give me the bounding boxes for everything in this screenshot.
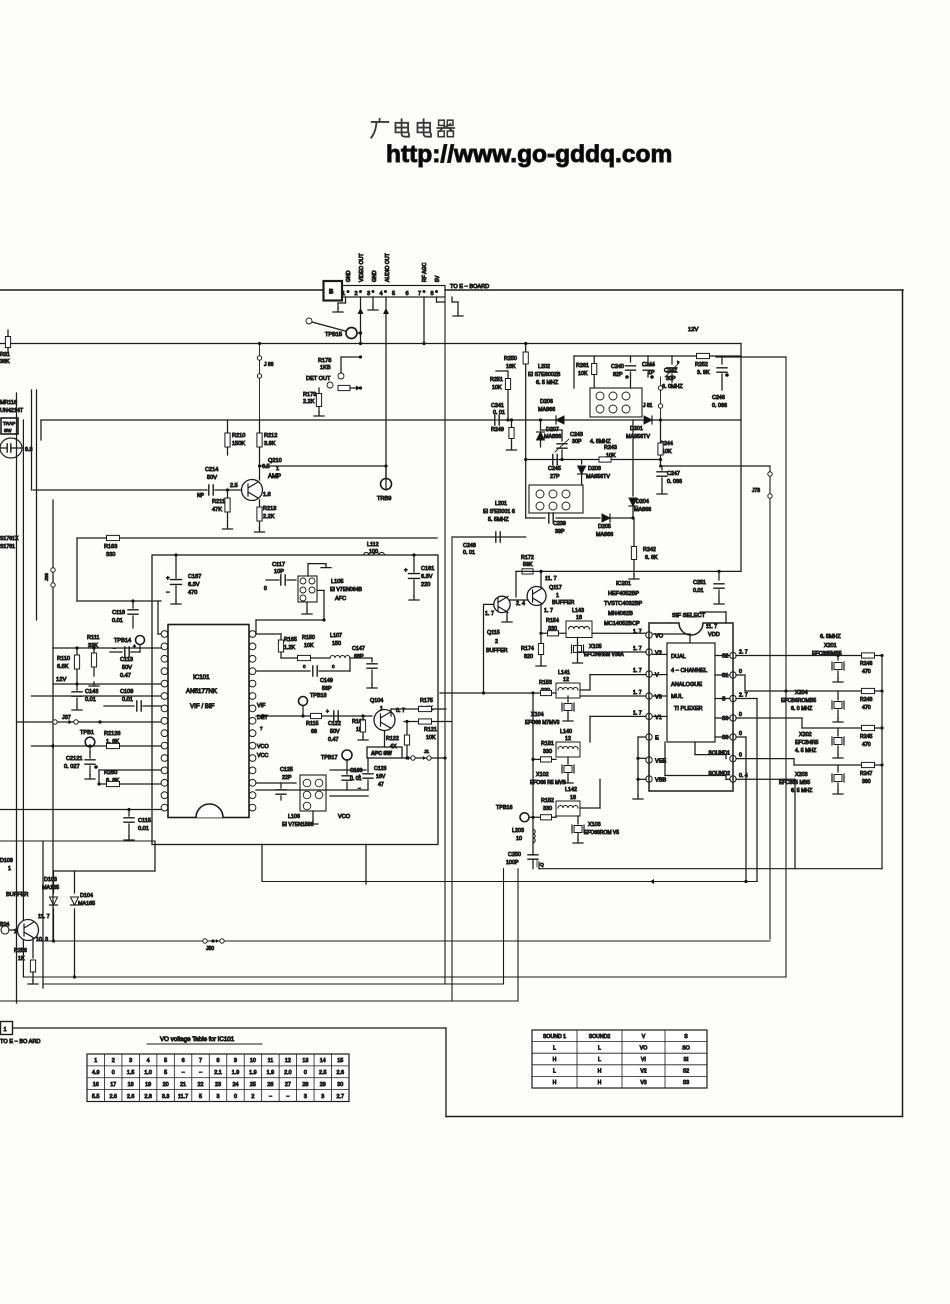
filter X103 EFO66ROM V5 <box>577 816 579 824</box>
svg-text:2.5: 2.5 <box>319 1070 327 1076</box>
wire Q117 base link <box>509 599 528 601</box>
svg-text:0. 01: 0. 01 <box>463 550 475 556</box>
wire Q117 emitter to VO row <box>540 605 542 633</box>
buffer transistor Q117 <box>527 587 546 606</box>
svg-text:6: 6 <box>182 1058 185 1064</box>
ground under L106 <box>312 811 314 820</box>
test point TPB15 <box>346 328 357 339</box>
svg-text:11. 7: 11. 7 <box>545 576 557 582</box>
svg-text:R256: R256 <box>14 948 27 954</box>
svg-text:TO E − BO ARD: TO E − BO ARD <box>0 1039 40 1045</box>
svg-text:2.0: 2.0 <box>284 1070 292 1076</box>
svg-text:R172: R172 <box>521 555 534 561</box>
svg-text:20: 20 <box>163 1082 169 1088</box>
svg-text:MA886: MA886 <box>544 434 561 440</box>
svg-text:1. 7: 1. 7 <box>633 668 642 674</box>
svg-text:50V: 50V <box>207 475 217 481</box>
svg-text:TPB1: TPB1 <box>80 730 94 736</box>
svg-text:0. 066: 0. 066 <box>712 403 727 409</box>
svg-text:R122: R122 <box>386 736 399 742</box>
svg-text:3: 3 <box>129 1058 132 1064</box>
svg-text:5V: 5V <box>435 275 441 282</box>
svg-text:R251: R251 <box>490 377 503 383</box>
svg-text:VIF / BIF: VIF / BIF <box>190 703 215 710</box>
wire vcc long vertical to bottom <box>365 845 367 885</box>
svg-text:R152: R152 <box>541 798 554 804</box>
wire V2 row from X105 junction <box>578 651 647 653</box>
coil L106 VCO box <box>300 775 326 811</box>
svg-text:VIF: VIF <box>257 703 266 709</box>
svg-text:J80: J80 <box>206 946 214 952</box>
svg-text:R246: R246 <box>860 661 873 667</box>
svg-text:27: 27 <box>285 1082 291 1088</box>
svg-text:TVSTC4032BP: TVSTC4032BP <box>604 601 643 607</box>
wire S2 row to X201 and R246 <box>736 655 882 657</box>
svg-text:1: 1 <box>94 1058 97 1064</box>
svg-text:2.2K: 2.2K <box>303 399 315 405</box>
svg-text:C147: C147 <box>352 646 365 652</box>
IC IC101 AN5177NK VIF/BIF body <box>168 625 249 818</box>
svg-text:−: − <box>181 1070 184 1076</box>
svg-text:16: 16 <box>93 1082 99 1088</box>
wire: second horizontal bus <box>0 343 741 345</box>
svg-text:TO E − BOARD: TO E − BOARD <box>450 284 489 290</box>
svg-text:C122: C122 <box>328 721 341 727</box>
svg-text:68: 68 <box>311 729 317 735</box>
svg-text:TPB16: TPB16 <box>496 805 512 811</box>
svg-text:1.8: 1.8 <box>263 492 271 498</box>
wire: left vertical bus C <box>31 390 33 490</box>
svg-text:2.7: 2.7 <box>337 1094 345 1100</box>
svg-text:C240: C240 <box>611 364 624 370</box>
svg-text:1KB: 1KB <box>320 365 331 371</box>
svg-text:4 − CHANNEL: 4 − CHANNEL <box>671 668 707 674</box>
svg-text:56P: 56P <box>322 686 332 692</box>
wire SOUND1 link from mux block <box>694 742 696 755</box>
svg-text:EFO66ROM V5: EFO66ROM V5 <box>584 830 619 836</box>
svg-text:0: 0 <box>303 664 306 669</box>
svg-text:5: 5 <box>392 291 395 297</box>
wire: return bus 2 <box>23 976 786 978</box>
svg-text:C248: C248 <box>463 543 476 549</box>
circled 1 pointer to TPB15 <box>306 318 312 324</box>
svg-text:−: − <box>286 1094 289 1100</box>
svg-text:C113: C113 <box>120 657 133 663</box>
wire mux inner pin stubs <box>653 653 667 655</box>
svg-text:4: 4 <box>380 291 383 297</box>
svg-text:13: 13 <box>302 1058 308 1064</box>
svg-text:1: 1 <box>4 1027 7 1033</box>
filter X201 <box>837 656 839 661</box>
svg-text:6.8K: 6.8K <box>57 664 69 670</box>
connector to E-board bottom box <box>1 1022 13 1035</box>
svg-text:VI: VI <box>641 1057 646 1063</box>
header: site watermark chinese text 广电电器 <box>371 119 388 138</box>
svg-text:390: 390 <box>862 779 871 785</box>
svg-text:H: H <box>598 1080 602 1086</box>
svg-text:S3: S3 <box>683 1080 689 1086</box>
svg-text:MUL: MUL <box>671 694 683 700</box>
svg-text:R110: R110 <box>57 656 70 662</box>
svg-text:−: − <box>113 646 116 652</box>
svg-text:R115: R115 <box>306 721 319 727</box>
wire VCO bottom bus <box>256 789 368 791</box>
svg-text:MA866: MA866 <box>634 507 651 513</box>
svg-text:1. 7: 1. 7 <box>633 690 642 696</box>
svg-text:11: 11 <box>268 1058 274 1064</box>
wire: 12V rail corner down <box>740 344 742 471</box>
wire TPB16 column vertical <box>532 693 534 855</box>
svg-text:C143: C143 <box>85 689 98 695</box>
svg-text:+: + <box>166 576 170 582</box>
svg-text:UN4214T: UN4214T <box>0 408 24 414</box>
svg-text:IC101: IC101 <box>193 674 210 681</box>
filter X203 <box>837 765 839 772</box>
svg-text:3: 3 <box>217 1094 220 1100</box>
svg-text:1.0: 1.0 <box>144 1070 152 1076</box>
wire pin2 video out vertical <box>360 297 362 343</box>
svg-text:2: 2 <box>112 1058 115 1064</box>
svg-text:C245: C245 <box>548 466 561 472</box>
svg-text:30P: 30P <box>666 376 676 382</box>
svg-text:R213: R213 <box>263 506 276 512</box>
svg-text:C241: C241 <box>491 403 504 409</box>
svg-text:3.9K: 3.9K <box>264 441 276 447</box>
svg-text:Q: Q <box>540 862 544 868</box>
svg-text:1.2K: 1.2K <box>284 645 295 651</box>
wire: drop from sound box to return bus 3 <box>503 869 505 984</box>
wire V row to mux <box>580 689 590 691</box>
svg-text:22P: 22P <box>282 775 292 781</box>
svg-text:11. 7: 11. 7 <box>38 914 50 920</box>
test point TPB18 <box>299 697 308 706</box>
svg-text:6. 0MHZ: 6. 0MHZ <box>662 384 683 390</box>
svg-text:150: 150 <box>332 641 341 647</box>
svg-text:0.01: 0.01 <box>122 697 133 703</box>
svg-text:+: + <box>358 774 361 780</box>
svg-text:−: − <box>199 1070 202 1076</box>
svg-text:D201: D201 <box>630 426 643 432</box>
TRAP SW box <box>1 418 18 434</box>
wire: left vertical bus E <box>52 500 54 941</box>
ground right of connector <box>451 297 453 302</box>
svg-text:S2: S2 <box>683 1069 689 1075</box>
svg-text:330: 330 <box>543 806 552 812</box>
svg-text:R252: R252 <box>695 362 708 368</box>
svg-text:L140: L140 <box>560 729 572 735</box>
svg-text:L: L <box>553 1069 556 1075</box>
svg-text:R247: R247 <box>860 771 873 777</box>
wire VO row to pin <box>592 632 646 634</box>
resistor R245 470 <box>862 725 875 730</box>
svg-text:16V: 16V <box>376 774 386 780</box>
svg-text:EI V7EN064B: EI V7EN064B <box>330 587 363 593</box>
svg-text:AN5177NK: AN5177NK <box>186 688 218 695</box>
svg-text:RF AGC: RF AGC <box>422 262 428 282</box>
test point TRB9 on audio line <box>381 479 392 490</box>
svg-text:14: 14 <box>320 1058 326 1064</box>
svg-text:12: 12 <box>563 677 569 683</box>
svg-text:12: 12 <box>565 736 571 742</box>
ground under L105 <box>306 602 308 610</box>
wire left edge small <box>7 330 9 352</box>
svg-text:2.6: 2.6 <box>109 1094 117 1100</box>
svg-text:TPB18: TPB18 <box>310 693 326 699</box>
svg-text:C250: C250 <box>508 852 521 858</box>
svg-text:DUAL: DUAL <box>671 654 686 660</box>
svg-text:12V: 12V <box>56 677 66 683</box>
wire: outer frame right edge <box>902 290 904 1117</box>
wire bus under detector with C248 <box>452 536 526 538</box>
svg-text:1. 7: 1. 7 <box>485 611 494 617</box>
svg-text:+: + <box>133 644 136 650</box>
svg-text:0: 0 <box>234 1094 237 1100</box>
test point TPB17 <box>342 750 352 760</box>
svg-text:R163: R163 <box>104 544 117 550</box>
svg-text:47K: 47K <box>212 507 222 513</box>
svg-text:MA856TV: MA856TV <box>586 474 610 480</box>
wire Q115 emitter ground <box>506 611 508 618</box>
resistor R247 390 <box>862 762 875 767</box>
svg-text:6. 5 MHZ: 6. 5 MHZ <box>536 380 559 386</box>
svg-text:0: 0 <box>112 1070 115 1076</box>
svg-text:10K: 10K <box>304 643 314 649</box>
svg-text:1.9: 1.9 <box>249 1070 257 1076</box>
svg-text:0: 0 <box>739 753 742 759</box>
svg-text:25: 25 <box>250 1082 256 1088</box>
svg-text:L: L <box>553 1045 556 1051</box>
svg-text:1.9: 1.9 <box>232 1070 240 1076</box>
svg-text:C109: C109 <box>120 689 133 695</box>
svg-text:6: 6 <box>406 291 409 297</box>
svg-text:VBB: VBB <box>655 778 666 784</box>
svg-text:V2: V2 <box>655 651 662 657</box>
filter X202 <box>837 728 839 736</box>
wire right J78 feed <box>661 465 771 467</box>
svg-text:2.1: 2.1 <box>214 1070 222 1076</box>
svg-text:50V: 50V <box>122 665 132 671</box>
svg-text:NP: NP <box>197 493 205 499</box>
svg-text:1.9: 1.9 <box>267 1070 275 1076</box>
svg-text:7: 7 <box>418 291 421 297</box>
svg-text:21: 21 <box>180 1082 186 1088</box>
svg-text:C149: C149 <box>320 678 333 684</box>
svg-text:R249: R249 <box>491 427 504 433</box>
svg-text:D103: D103 <box>44 877 57 883</box>
svg-text:0: 0 <box>304 1070 307 1076</box>
svg-text:0: 0 <box>332 664 335 669</box>
wire S drop to return bus <box>736 698 757 700</box>
filter X102 EFO66 R5 MVB <box>567 757 569 764</box>
wire from left bus to diodes <box>0 840 155 842</box>
svg-text:VCO: VCO <box>338 814 351 820</box>
filter X104 EFO66M7MV3 <box>567 696 569 702</box>
resistor R246 470 <box>862 653 875 658</box>
svg-text:18K: 18K <box>506 364 516 370</box>
svg-text:Q104: Q104 <box>370 698 383 704</box>
svg-text:L107: L107 <box>330 633 342 639</box>
svg-text:68P: 68P <box>354 654 364 660</box>
svg-text:L106: L106 <box>288 814 300 820</box>
svg-text:3. 9K: 3. 9K <box>697 370 710 376</box>
svg-text:C117: C117 <box>272 562 285 568</box>
svg-text:17: 17 <box>110 1082 116 1088</box>
svg-text:2: 2 <box>355 291 358 297</box>
svg-text:100P: 100P <box>506 860 519 866</box>
svg-text:Q115: Q115 <box>487 630 500 636</box>
svg-text:R179: R179 <box>303 392 316 398</box>
svg-text:AUDIO OUT: AUDIO OUT <box>385 252 391 282</box>
wire SOUND2 link from mux block <box>664 742 666 776</box>
svg-text:30: 30 <box>337 1082 343 1088</box>
svg-text:1. 7: 1. 7 <box>633 646 642 652</box>
svg-text:56K: 56K <box>523 562 533 568</box>
wire collector to TRB9 <box>260 465 387 467</box>
svg-text:EFC34R5M V36A: EFC34R5M V36A <box>584 652 624 658</box>
svg-text:SO: SO <box>682 1045 690 1051</box>
svg-text:2.6: 2.6 <box>337 1070 345 1076</box>
svg-text:H: H <box>553 1080 557 1086</box>
svg-text:R165: R165 <box>284 637 297 643</box>
svg-text:D109: D109 <box>0 858 13 864</box>
svg-text:EI S'ES001 6: EI S'ES001 6 <box>483 509 515 515</box>
svg-text:C118: C118 <box>112 610 125 616</box>
IC201 right pin circles and labels <box>730 652 736 658</box>
svg-text:2. 4: 2. 4 <box>516 601 525 607</box>
svg-text:2: 2 <box>251 1094 254 1100</box>
wire VDD pin stub <box>725 612 727 623</box>
wire Q115 base feed from IF <box>484 603 494 605</box>
svg-text:4. 5 MHZ: 4. 5 MHZ <box>795 748 816 754</box>
svg-text:R153: R153 <box>539 680 552 686</box>
svg-text:5.5: 5.5 <box>92 1094 100 1100</box>
wire S3 drop to return bus <box>736 736 746 738</box>
svg-text:10. 3: 10. 3 <box>36 937 48 943</box>
svg-text:470: 470 <box>188 590 197 596</box>
wire: audio vertical from pin4 down to buffer <box>385 479 387 491</box>
svg-text:2. 7: 2. 7 <box>739 693 748 699</box>
svg-text:VDD: VDD <box>708 632 720 638</box>
table sound select logic <box>532 1030 707 1088</box>
wire: bus out of connector to right frame <box>445 289 903 291</box>
switch APC SW box <box>367 747 402 758</box>
svg-text:1: 1 <box>276 466 279 472</box>
svg-text:L: L <box>598 1057 601 1063</box>
svg-text:1: 1 <box>556 593 559 599</box>
svg-text:12V: 12V <box>688 327 698 333</box>
svg-text:220: 220 <box>421 582 430 588</box>
wire: return bus 4 <box>0 1000 518 1002</box>
connector B plug box <box>324 281 343 301</box>
svg-text:R212: R212 <box>264 433 277 439</box>
svg-text:SOUND1: SOUND1 <box>708 751 730 757</box>
svg-text:C251: C251 <box>693 580 706 586</box>
svg-text:5. 5MHZ: 5. 5MHZ <box>488 517 509 523</box>
svg-text:X105: X105 <box>589 644 602 650</box>
svg-text:R111: R111 <box>87 635 100 641</box>
svg-text:3.3: 3.3 <box>162 1094 170 1100</box>
svg-text:330: 330 <box>106 552 115 558</box>
svg-text:0. 027: 0. 027 <box>64 764 80 770</box>
wire 12V rail through sound section <box>516 570 741 572</box>
svg-text:2.8: 2.8 <box>144 1094 152 1100</box>
svg-text:R31: R31 <box>0 352 10 358</box>
svg-text:19: 19 <box>145 1082 151 1088</box>
svg-text:C243: C243 <box>570 432 583 438</box>
wire L105 top hook <box>307 564 309 576</box>
wire V3 row from L141 box <box>580 695 646 697</box>
svg-text:30P: 30P <box>572 439 582 445</box>
svg-text:MN4062B: MN4062B <box>608 611 633 617</box>
IC201 inner block DUAL 4-CHANNEL ANALOGUE MULTIPLEXER <box>667 643 715 742</box>
svg-text:C115: C115 <box>138 818 151 824</box>
wire SOUND2 out to box bottom <box>736 778 795 780</box>
IC IC201 multiplexer outline <box>649 623 733 791</box>
svg-text:R121: R121 <box>424 727 437 733</box>
svg-text:L142: L142 <box>565 787 577 793</box>
svg-text:H: H <box>553 1057 557 1063</box>
svg-text:2.5: 2.5 <box>230 483 238 489</box>
svg-text:BUFFER: BUFFER <box>486 648 508 654</box>
svg-text:0.01: 0.01 <box>138 826 149 832</box>
svg-text:1. 7: 1. 7 <box>633 629 642 635</box>
svg-text:H: H <box>598 1069 602 1075</box>
svg-text:EFO66 R5 MVB: EFO66 R5 MVB <box>530 780 567 786</box>
svg-text:L: L <box>598 1045 601 1051</box>
svg-text:TI PLEXER: TI PLEXER <box>674 706 703 712</box>
wire: left vertical bus A <box>16 393 18 1003</box>
svg-text:L201: L201 <box>495 501 507 507</box>
svg-text:R178: R178 <box>318 358 331 364</box>
svg-text:R261: R261 <box>576 363 589 369</box>
svg-text:15: 15 <box>337 1058 343 1064</box>
svg-text:L202: L202 <box>538 364 550 370</box>
svg-text:4.9: 4.9 <box>92 1070 100 1076</box>
svg-text:J78: J78 <box>752 488 760 494</box>
svg-text:1. 7: 1. 7 <box>633 710 642 716</box>
svg-text:L143: L143 <box>572 608 584 614</box>
svg-text:1: 1 <box>8 866 11 872</box>
svg-text:GND: GND <box>346 270 352 282</box>
svg-text:10: 10 <box>516 836 522 842</box>
resistor R248 470 <box>862 688 875 693</box>
wire: secondary vertical drop <box>451 537 453 1001</box>
svg-text:24: 24 <box>232 1082 238 1088</box>
svg-text:J36: J36 <box>44 573 50 581</box>
svg-text:S3: S3 <box>722 735 728 741</box>
svg-text:C161: C161 <box>421 566 434 572</box>
svg-text:L112: L112 <box>367 542 379 548</box>
wire V1 row <box>590 715 646 717</box>
svg-text:C246: C246 <box>712 395 725 401</box>
svg-text:C247: C247 <box>667 471 680 477</box>
svg-text:SOUND2: SOUND2 <box>589 1034 611 1040</box>
svg-text:D208: D208 <box>588 466 601 472</box>
connector B pin strip TO E-BOARD <box>342 286 445 298</box>
svg-text:VCO: VCO <box>257 744 269 750</box>
svg-text:MC14052BCP: MC14052BCP <box>604 621 640 627</box>
svg-text:S2: S2 <box>722 654 728 660</box>
svg-text:2.2K: 2.2K <box>263 514 275 520</box>
svg-text:SOUND 1: SOUND 1 <box>543 1034 566 1040</box>
svg-text:D104: D104 <box>80 893 93 899</box>
svg-text:V: V <box>642 1034 646 1040</box>
svg-text:330: 330 <box>543 749 552 755</box>
svg-text:+: + <box>404 568 408 574</box>
svg-text:ANALOGUE: ANALOGUE <box>671 682 702 688</box>
svg-text:5: 5 <box>164 1070 167 1076</box>
svg-text:C244: C244 <box>642 362 655 368</box>
